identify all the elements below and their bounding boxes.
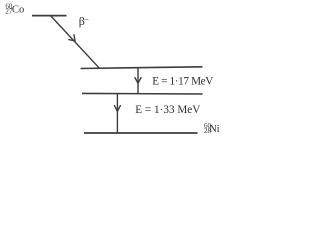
nuclide label Ni-60 bbox=[204, 122, 220, 135]
gamma-1 transition wire bbox=[137, 68, 139, 94]
Ni-60 ground state line bbox=[84, 132, 198, 134]
Co-60 level line bbox=[32, 15, 67, 17]
svg-text:E = 1·33 MeV: E = 1·33 MeV bbox=[135, 104, 200, 116]
svg-text:Co: Co bbox=[12, 5, 24, 16]
svg-text:E = 1·17 MeV: E = 1·17 MeV bbox=[152, 76, 213, 88]
gamma-2 arrowhead bbox=[114, 106, 120, 112]
nuclide label Co-60 bbox=[5, 3, 24, 16]
gamma-1 arrowhead bbox=[135, 78, 141, 84]
beta-minus label bbox=[79, 14, 90, 28]
svg-text:Ni: Ni bbox=[210, 124, 220, 135]
Ni-60 level E1 line (2.50 MeV) bbox=[81, 67, 203, 69]
Ni-60 level E2 line (1.33 MeV) bbox=[82, 92, 203, 95]
svg-text:–: – bbox=[83, 15, 89, 24]
gamma-2 transition wire bbox=[116, 94, 118, 133]
beta decay diagonal wire bbox=[51, 16, 100, 69]
beta arrowhead bbox=[69, 35, 78, 44]
